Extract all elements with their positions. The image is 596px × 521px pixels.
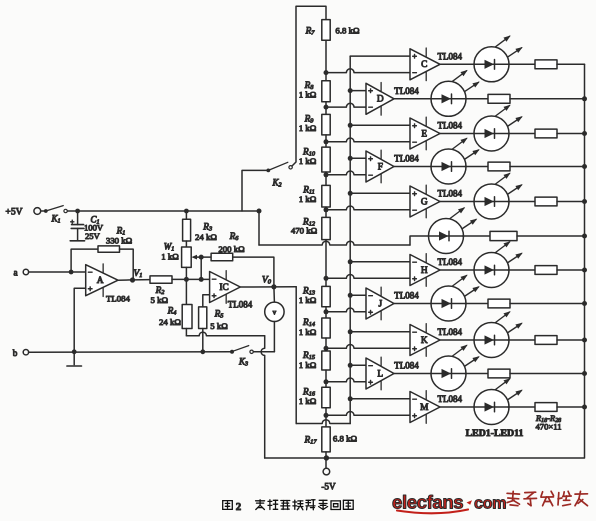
op-amp H (TL084) <box>410 254 440 287</box>
LED <box>474 241 523 287</box>
wire +5V to K2 <box>242 170 268 211</box>
wire resistor to rail row 11 <box>557 406 585 408</box>
wire ladder tap to G input <box>326 206 410 210</box>
svg-text:−: − <box>368 360 373 370</box>
wire +5V terminal to K1 <box>41 210 46 212</box>
ground symbol <box>67 352 82 366</box>
node junction rail row 9 <box>582 338 587 343</box>
resistor R26 470 <box>535 336 557 345</box>
wire rail b <box>29 351 232 353</box>
svg-text:TL084: TL084 <box>438 327 463 337</box>
node b terminal <box>13 348 29 358</box>
op-amp IC (TL084) <box>210 271 241 304</box>
node junction R2/wiper <box>199 277 204 282</box>
logo elecfans.com <box>392 492 506 514</box>
LED <box>431 70 480 116</box>
svg-text:R6: R6 <box>229 232 240 242</box>
svg-text:b: b <box>13 348 18 358</box>
node junction rail row 5 <box>582 199 587 204</box>
resistor R14 1 kΩ <box>299 318 330 338</box>
wire V0 bus to L input <box>350 364 366 366</box>
svg-text:−: − <box>88 267 93 277</box>
svg-text:1 kΩ: 1 kΩ <box>299 156 317 166</box>
node ladder tap 11 <box>324 413 329 418</box>
node junction rail row 10 <box>582 371 587 376</box>
svg-text:−: − <box>412 327 417 337</box>
svg-text:1 kΩ: 1 kΩ <box>161 252 179 262</box>
svg-text:470×11: 470×11 <box>535 422 561 432</box>
wire F output to LED <box>394 166 432 168</box>
svg-text:V1: V1 <box>134 269 143 279</box>
svg-text:−: − <box>368 170 373 180</box>
switch K2 <box>266 162 292 188</box>
node junction C1/+5V <box>75 209 80 214</box>
node junction bus row F <box>348 156 353 161</box>
wire ladder bottom to -5V <box>325 452 327 468</box>
svg-text:6.8 kΩ: 6.8 kΩ <box>333 434 358 444</box>
svg-text:1 kΩ: 1 kΩ <box>299 360 317 370</box>
svg-text:330 kΩ: 330 kΩ <box>106 235 133 245</box>
wire comparator bus (V0) <box>349 56 351 423</box>
node ladder tap 5 <box>324 207 329 212</box>
node junction rail row 7 <box>582 268 587 273</box>
wire ladder segment <box>325 338 327 351</box>
node ladder tap 8 <box>324 309 329 314</box>
wire +5V branch to LED6 <box>259 211 430 245</box>
svg-text:−: − <box>412 137 417 147</box>
label R18-R28 470x11 <box>535 413 562 432</box>
wire LED to resistor row 2 <box>465 98 488 100</box>
svg-text:+: + <box>70 217 74 226</box>
caption: figure 2 label <box>223 501 242 513</box>
node ladder tap 1 <box>324 70 329 75</box>
svg-text:J: J <box>378 299 382 309</box>
resistor R3 24k <box>183 211 218 242</box>
svg-text:D: D <box>377 95 384 105</box>
wire L output to LED <box>394 373 432 375</box>
wire ladder segment <box>325 307 327 318</box>
svg-text:−: − <box>412 205 417 215</box>
svg-text:+: + <box>212 290 217 300</box>
wire LED to resistor row 8 <box>465 303 488 305</box>
resistor R19 470 <box>488 94 510 103</box>
wire ladder segment <box>325 240 327 287</box>
svg-text:−: − <box>368 102 373 112</box>
svg-text:V0: V0 <box>262 274 272 285</box>
op-amp M (TL084) <box>410 391 440 424</box>
wire V0 bus to G input <box>350 192 410 194</box>
svg-text:E: E <box>421 129 427 139</box>
wire A + input to ground rail <box>74 288 86 352</box>
node ladder tap 3 <box>324 139 329 144</box>
svg-text:+: + <box>368 153 373 163</box>
svg-text:K3: K3 <box>238 357 248 368</box>
svg-text:H: H <box>421 266 428 276</box>
op-amp D (TL084) <box>366 83 394 116</box>
wire +5V rail <box>67 210 259 212</box>
LED <box>429 207 478 253</box>
node junction bus row D <box>348 88 353 93</box>
svg-text:+: + <box>368 86 373 96</box>
svg-text:TL084: TL084 <box>394 361 419 371</box>
svg-text:TL084: TL084 <box>438 394 463 404</box>
op-amp J (TL084) <box>366 287 394 320</box>
svg-text:v: v <box>273 309 277 317</box>
wire LED to resistor row 9 <box>508 339 535 341</box>
wire ladder tap to H input <box>326 275 410 279</box>
wire R6 to V0 <box>233 257 274 287</box>
node junction rail row 4 <box>582 164 587 169</box>
resistor R28 470 <box>535 403 557 412</box>
svg-text:1 kΩ: 1 kΩ <box>299 327 317 337</box>
logo chinese characters <box>507 491 587 505</box>
wire resistor to rail row 3 <box>557 133 585 135</box>
resistor R4 24k <box>159 305 192 329</box>
node V1 <box>130 269 143 283</box>
node ladder tap 10 <box>324 379 329 384</box>
svg-text:elecfans: elecfans <box>392 492 463 513</box>
wire LED to resistor row 1 <box>508 63 535 65</box>
svg-text:24 kΩ: 24 kΩ <box>195 232 217 242</box>
wire ladder segment <box>325 370 327 387</box>
svg-text:TL084: TL084 <box>394 291 419 301</box>
wire R5 bottom to rail b <box>202 329 204 352</box>
op-amp C (TL084) <box>410 48 440 81</box>
wire V0 bus to M input <box>350 398 410 400</box>
voltmeter V <box>265 287 284 352</box>
wire K output to LED <box>440 339 475 341</box>
svg-text:R7: R7 <box>305 27 316 37</box>
node junction rail row 2 <box>582 96 587 101</box>
node a terminal <box>13 268 28 278</box>
svg-text:+: + <box>412 120 417 130</box>
svg-text:a: a <box>13 268 17 278</box>
wire LED to resistor row 10 <box>465 373 488 375</box>
potentiometer W1 1k <box>161 241 201 267</box>
svg-text:1 kΩ: 1 kΩ <box>299 123 317 133</box>
wire R23 to -5V rail <box>517 235 585 237</box>
resistor R25 470 <box>488 299 510 308</box>
svg-text:+: + <box>412 410 417 420</box>
op-amp G (TL084) <box>410 185 440 218</box>
node junction a/feedback <box>69 270 74 275</box>
resistor R22 470 <box>535 197 557 206</box>
svg-text:5 kΩ: 5 kΩ <box>151 295 169 305</box>
svg-text:TL084: TL084 <box>106 294 131 304</box>
wire V0 bus to C input <box>350 55 410 57</box>
resistor R13 1 kΩ <box>299 286 330 306</box>
svg-text:+5V: +5V <box>5 207 22 218</box>
wire ladder tap to J input <box>326 308 366 312</box>
op-amp A (TL084) <box>86 264 118 297</box>
resistor R24 470 <box>535 266 557 275</box>
svg-text:G: G <box>421 197 428 207</box>
wire W1 bottom to R4 <box>185 267 187 304</box>
wire ladder segment <box>325 102 327 115</box>
svg-text:K1: K1 <box>50 214 60 225</box>
wire resistor to rail row 7 <box>557 269 585 271</box>
op-amp K (TL084) <box>410 324 440 357</box>
svg-text:IC: IC <box>219 283 228 293</box>
wire J output to LED <box>394 303 432 305</box>
svg-text:470 kΩ: 470 kΩ <box>291 226 318 236</box>
wire ladder segment <box>325 40 327 81</box>
wire D output to LED <box>394 98 432 100</box>
switch K3 <box>230 346 253 368</box>
wire A output to R2 (node V1) <box>118 279 150 282</box>
wire ladder segment <box>325 172 327 185</box>
resistor R16 1 kΩ <box>299 387 330 408</box>
svg-text:L: L <box>377 369 383 379</box>
svg-text:+: + <box>412 343 417 353</box>
svg-text:K: K <box>421 336 428 346</box>
node junction ground/rail b <box>72 349 77 354</box>
wire V0 bus to D input <box>350 90 366 92</box>
node wiper junction <box>199 255 204 260</box>
LED <box>431 345 480 391</box>
node junction bus row J <box>348 293 353 298</box>
svg-text:-5V: -5V <box>321 482 336 492</box>
resistor R21 470 <box>488 162 510 171</box>
svg-text:+: + <box>412 273 417 283</box>
wire ladder segment <box>325 135 327 147</box>
svg-text:−: − <box>368 290 373 300</box>
node ladder tap 9 <box>324 346 329 351</box>
svg-text:TL084: TL084 <box>438 52 463 62</box>
node junction -5V/bottom rail <box>324 455 329 460</box>
wire resistor to rail row 10 <box>510 373 585 375</box>
resistor R1 330k <box>98 226 133 252</box>
caption text: transient current detection circuit <box>256 500 354 510</box>
node junction row6/rail <box>582 234 587 239</box>
wire resistor to rail row 9 <box>557 339 585 341</box>
node junction bus row K <box>348 329 353 334</box>
resistor R8 1 kΩ <box>299 81 330 102</box>
node junction R3/+5V rail <box>184 209 189 214</box>
svg-text:TL084: TL084 <box>438 189 463 199</box>
wire right rail (-5V return) <box>326 64 584 458</box>
wire resistor to rail row 2 <box>510 98 585 100</box>
wire LED to resistor row 7 <box>508 269 535 271</box>
wire C output to LED <box>440 63 475 65</box>
wire ladder tap to F input <box>326 171 366 175</box>
svg-text:F: F <box>378 162 383 172</box>
resistor R6 200k feedback <box>201 232 245 261</box>
resistor R20 470 <box>535 129 557 138</box>
node junction rail row 8 <box>582 301 587 306</box>
svg-text:TL084: TL084 <box>394 86 419 96</box>
LED <box>474 311 523 357</box>
svg-text:R4: R4 <box>167 307 178 317</box>
svg-text:200 kΩ: 200 kΩ <box>218 244 245 254</box>
svg-text:TL084: TL084 <box>438 121 463 131</box>
node junction bus row H <box>348 259 353 264</box>
wire LED to resistor row 4 <box>465 166 488 168</box>
wire R1 to A output <box>120 249 134 280</box>
resistor R12 470 kΩ <box>291 217 330 239</box>
svg-text:TL084: TL084 <box>228 300 253 310</box>
svg-text:1 kΩ: 1 kΩ <box>299 295 317 305</box>
resistor R11 1 kΩ <box>299 185 330 207</box>
wire node a to op-amp A inverting input <box>29 271 86 273</box>
wire wiper to IC inverting input <box>200 257 202 279</box>
svg-text:−: − <box>412 394 417 404</box>
svg-text:R5: R5 <box>214 309 224 319</box>
node junction +5V/LED6 branch <box>257 209 262 214</box>
svg-text:1 kΩ: 1 kΩ <box>299 194 317 204</box>
svg-text:M: M <box>420 403 429 413</box>
LED <box>431 138 480 184</box>
svg-text:LED1-LED11: LED1-LED11 <box>466 428 524 439</box>
svg-text:−: − <box>212 274 217 284</box>
wire ladder tap to M input <box>326 412 410 416</box>
svg-text:R17: R17 <box>304 436 318 446</box>
resistor R18 470 <box>535 60 557 69</box>
LED <box>474 105 523 151</box>
wire LED6 to R23 <box>463 235 491 237</box>
svg-text:TL084: TL084 <box>438 257 463 267</box>
wire ladder segment <box>325 207 327 217</box>
node ladder tap 7 <box>324 276 329 281</box>
wire V0 bus to J input <box>350 294 366 296</box>
wire K2 to ladder top rail <box>292 6 326 166</box>
wire resistor to rail row 8 <box>510 303 585 305</box>
svg-text:6.8 kΩ: 6.8 kΩ <box>335 26 360 36</box>
resistor R23 470 <box>490 231 517 240</box>
node -5V terminal <box>321 468 336 491</box>
op-amp E (TL084) <box>410 117 440 150</box>
node ladder tap 2 <box>324 105 329 110</box>
svg-text:−: − <box>412 68 417 78</box>
resistor R27 470 <box>488 369 510 378</box>
svg-text:2: 2 <box>236 501 241 513</box>
svg-text:1 kΩ: 1 kΩ <box>299 90 317 100</box>
node junction bus row L <box>348 363 353 368</box>
svg-text:5 kΩ: 5 kΩ <box>210 321 228 331</box>
wire E output to LED <box>440 133 475 135</box>
svg-text:+: + <box>412 188 417 198</box>
LED <box>474 173 523 219</box>
resistor R15 1 kΩ <box>299 351 330 370</box>
resistor R17 6.8 kΩ <box>304 427 358 452</box>
wire LED to resistor row 11 <box>508 406 535 408</box>
node ladder tap 4 <box>324 172 329 177</box>
svg-text:com: com <box>474 495 506 513</box>
switch K1 <box>44 206 67 225</box>
wire resistor to rail row 5 <box>557 201 585 203</box>
node junction rail row 3 <box>582 131 587 136</box>
wire V0 bus to F input <box>350 157 366 159</box>
capacitor C1 100V 25V <box>70 211 104 241</box>
node junction bus row E <box>348 123 353 128</box>
wire ladder tap to E input <box>326 138 410 142</box>
wire IC output to node V0 <box>240 286 296 288</box>
wire H output to LED <box>440 269 475 271</box>
resistor R9 1 kΩ <box>299 114 330 134</box>
wire feedback loop of A <box>71 249 98 272</box>
node junction R5/rail b <box>200 349 205 354</box>
wire LED to resistor row 5 <box>508 201 535 203</box>
wire M output to LED <box>440 406 475 408</box>
svg-text:25V: 25V <box>85 231 101 241</box>
op-amp L (TL084) <box>366 357 394 390</box>
node junction bus row G <box>348 191 353 196</box>
svg-text:24 kΩ: 24 kΩ <box>159 317 181 327</box>
wire V0 bus to K input <box>350 331 410 333</box>
wire V0 to comparator bus <box>296 287 350 424</box>
wire resistor to rail row 1 <box>557 63 585 65</box>
resistor R2 5k <box>150 276 172 305</box>
LED <box>474 35 523 81</box>
node junction rail row 11 <box>582 405 587 410</box>
wire V0 bus to H input <box>350 261 410 263</box>
LED <box>431 275 480 321</box>
svg-text:1 kΩ: 1 kΩ <box>299 396 317 406</box>
svg-text:+: + <box>88 284 93 294</box>
svg-text:A: A <box>97 276 104 286</box>
node +5V terminal <box>5 207 40 218</box>
wire IC non-inverting input to R5 <box>203 295 210 307</box>
wire ladder tap to C input <box>326 69 410 73</box>
wire ladder tap to K input <box>326 345 410 349</box>
svg-text:+: + <box>368 377 373 387</box>
wire R4 to -5V rail <box>186 329 326 459</box>
wire ladder tap to D input <box>326 103 366 107</box>
wire G output to LED <box>440 201 475 203</box>
wire R2 to IC inverting input <box>172 278 210 280</box>
wire V0 bus to E input <box>350 124 410 126</box>
node junction R2/W1 divider <box>184 277 189 282</box>
node junction bus row M <box>348 396 353 401</box>
wire ladder segment <box>325 408 327 427</box>
svg-text:+: + <box>368 307 373 317</box>
resistor R7 6.8 kΩ <box>305 20 360 41</box>
resistor R10 1 kΩ <box>299 147 330 172</box>
wire ladder tap to L input <box>326 378 366 382</box>
op-amp F (TL084) <box>366 150 394 183</box>
resistor R5 5k <box>199 307 229 331</box>
svg-text:+: + <box>412 51 417 61</box>
svg-text:K2: K2 <box>271 178 281 189</box>
wire resistor to rail row 4 <box>510 166 585 168</box>
wire LED to resistor row 3 <box>508 133 535 135</box>
node V0 <box>262 274 277 289</box>
svg-text:TL084: TL084 <box>394 154 419 164</box>
wire K3 to voltmeter <box>253 351 274 353</box>
svg-text:C: C <box>421 60 427 70</box>
svg-text:−: − <box>412 257 417 267</box>
LED <box>474 378 523 424</box>
